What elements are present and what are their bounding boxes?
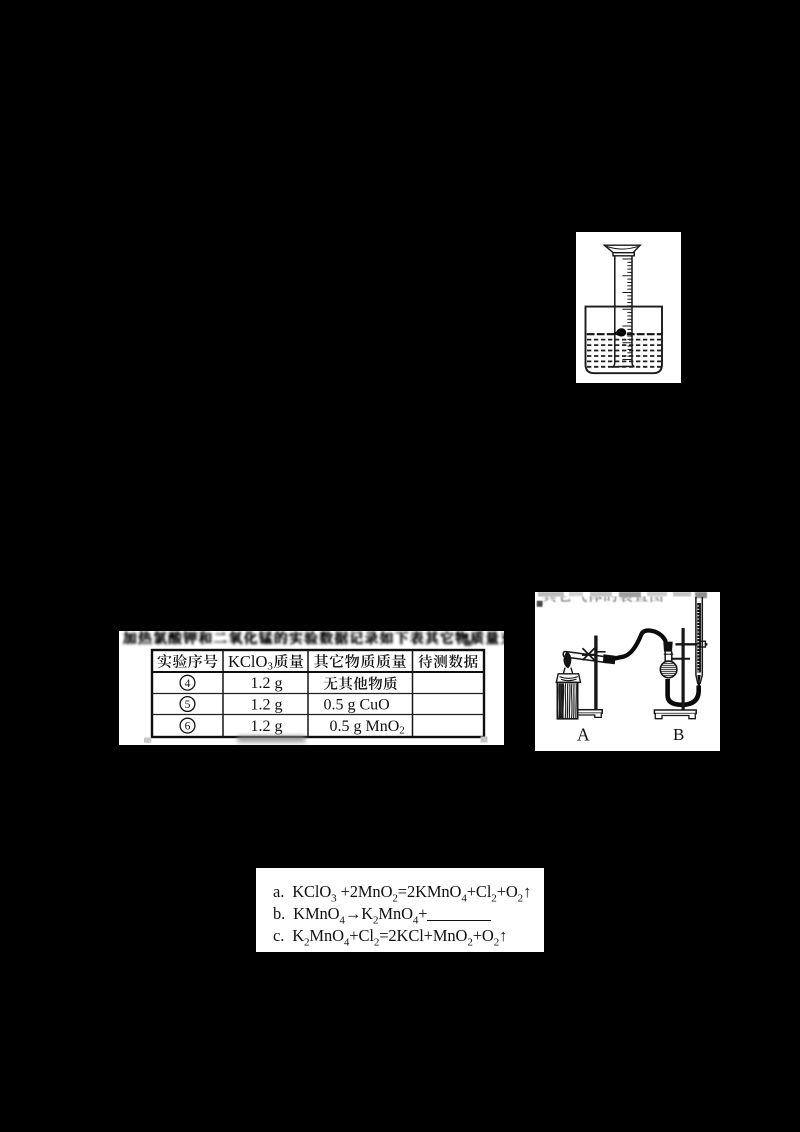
row 4 col3: no other substance xyxy=(324,676,397,690)
svg-text:1.2 g: 1.2 g xyxy=(251,718,283,735)
flask neck xyxy=(664,652,673,662)
clamp rod to burette xyxy=(675,643,707,645)
rubber stopper of test tube xyxy=(603,654,616,664)
row 4 circled xyxy=(180,675,195,690)
clamp rod to flask neck xyxy=(672,658,690,660)
blurred text line above table xyxy=(123,631,514,645)
svg-text:5: 5 xyxy=(185,699,191,711)
clipped blurred caption at top xyxy=(543,589,663,603)
graduated tube xyxy=(612,256,634,367)
svg-text:6: 6 xyxy=(185,721,191,733)
gray artifacts bottom xyxy=(144,738,151,743)
flask stopper xyxy=(663,642,672,652)
row 6 circled xyxy=(180,718,195,733)
svg-text:0.5 g CuO: 0.5 g CuO xyxy=(324,697,390,714)
scanner edge smudges xyxy=(537,592,707,607)
flask bulb with liquid xyxy=(660,661,677,678)
stand B rod xyxy=(681,628,684,710)
1.2 g cells xyxy=(251,675,283,735)
equation b xyxy=(273,904,491,924)
table grid xyxy=(152,650,484,737)
U tube flask to burette xyxy=(668,679,699,705)
svg-text:0.5 g MnO2: 0.5 g MnO2 xyxy=(330,718,405,737)
burette xyxy=(696,597,702,684)
beaker xyxy=(586,307,663,374)
stand A rod xyxy=(594,636,597,711)
white panel: chemical equations xyxy=(256,868,544,952)
svg-text:KClO3: KClO3 xyxy=(228,652,273,673)
clamp on stand A xyxy=(582,648,606,660)
white panel: data table xyxy=(119,631,504,745)
svg-text:1.2 g: 1.2 g xyxy=(251,697,283,714)
stand B base xyxy=(654,710,696,719)
header: col1 xyxy=(158,654,218,668)
svg-text:B: B xyxy=(673,725,684,744)
equation a xyxy=(273,882,531,902)
tube graduations xyxy=(622,259,632,360)
water dashes xyxy=(587,339,661,341)
svg-text:A: A xyxy=(577,725,590,745)
row 5 circled xyxy=(180,697,195,712)
equation c xyxy=(273,926,507,946)
header: col3 xyxy=(314,654,406,668)
white panel: measuring-tube in beaker figure xyxy=(576,232,681,383)
lamp body with grain xyxy=(557,682,577,718)
alcohol lamp flame xyxy=(564,652,572,669)
delivery tube A to B xyxy=(615,630,666,658)
stand A base xyxy=(570,710,602,718)
svg-text:4: 4 xyxy=(185,678,191,690)
funnel mouth xyxy=(604,245,640,256)
svg-text:1.2 g: 1.2 g xyxy=(251,675,283,692)
lamp neck xyxy=(563,668,572,674)
header: col4 xyxy=(418,654,477,668)
lamp collar xyxy=(556,674,580,683)
float ball at waterline xyxy=(613,328,626,336)
test tube xyxy=(563,651,607,662)
water surface line xyxy=(587,333,661,335)
white panel: experiment apparatus figure xyxy=(535,592,720,751)
